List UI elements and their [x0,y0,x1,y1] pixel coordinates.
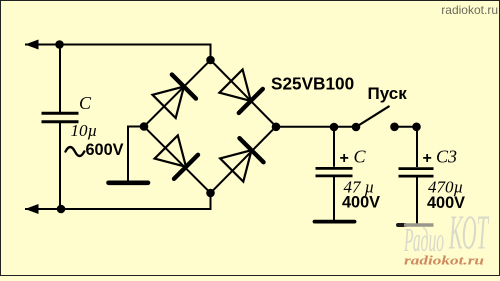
svg-text:Пуск: Пуск [368,84,408,103]
svg-text:400V: 400V [342,194,380,212]
svg-text:radiokot.ru: radiokot.ru [441,3,498,17]
svg-text:radiokot.ru: radiokot.ru [404,253,484,268]
svg-text:S25VB100: S25VB100 [271,74,354,94]
svg-text:C: C [354,147,367,167]
svg-text:600V: 600V [86,141,124,159]
svg-text:КОТ: КОТ [449,205,490,260]
svg-text:C3: C3 [436,147,457,167]
svg-text:+: + [340,150,349,167]
svg-text:+: + [423,150,432,167]
svg-text:C: C [79,93,92,113]
svg-text:10µ: 10µ [71,121,98,140]
